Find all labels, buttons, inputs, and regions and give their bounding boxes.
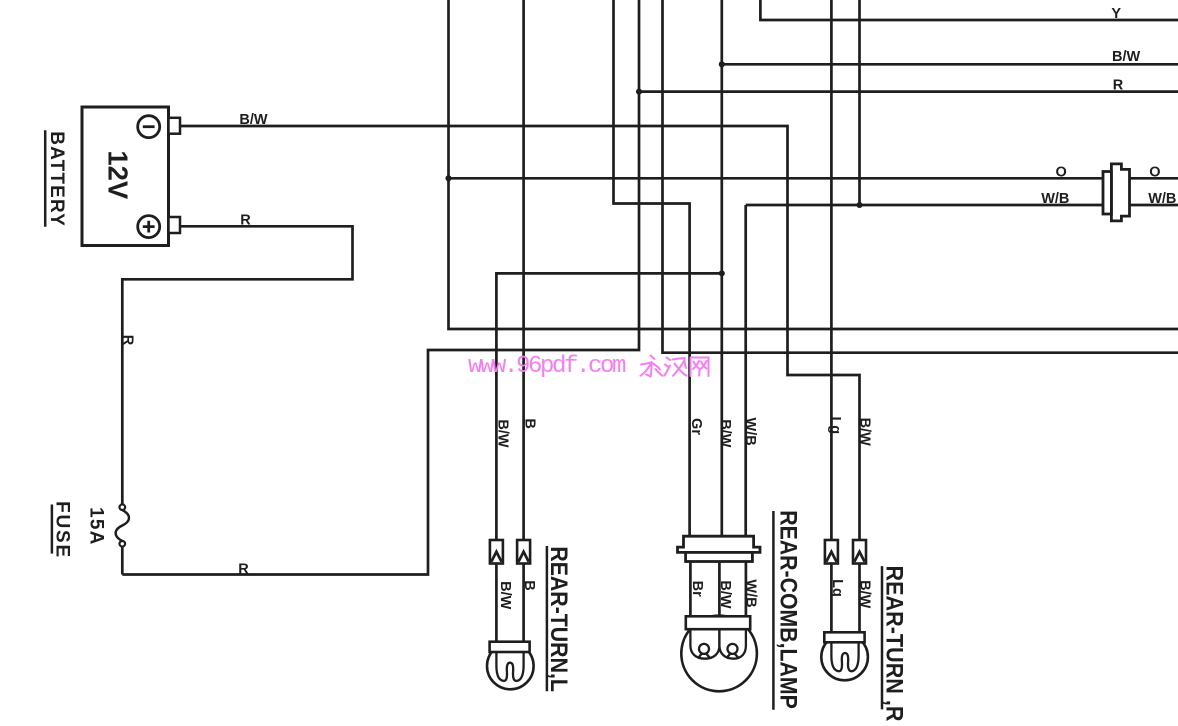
svg-text:B/W: B/W xyxy=(856,580,872,609)
svg-text:Br: Br xyxy=(689,581,705,597)
svg-text:B/W: B/W xyxy=(717,580,733,609)
svg-text:Gr: Gr xyxy=(688,418,704,435)
svg-text:Y: Y xyxy=(1111,6,1121,22)
svg-text:Lg: Lg xyxy=(829,579,845,597)
svg-text:W/B: W/B xyxy=(1148,191,1176,207)
svg-text:B/W: B/W xyxy=(717,419,733,448)
svg-text:REAR-TURN,L: REAR-TURN,L xyxy=(546,546,573,692)
svg-text:R: R xyxy=(238,561,249,577)
svg-text:W/B: W/B xyxy=(742,418,758,446)
svg-text:15A: 15A xyxy=(85,507,106,545)
svg-text:R: R xyxy=(240,212,251,228)
svg-text:B/W: B/W xyxy=(856,418,872,447)
svg-text:REAR-TURN ,R: REAR-TURN ,R xyxy=(881,566,908,722)
svg-text:B/W: B/W xyxy=(497,581,513,610)
svg-text:REAR-COMB,LAMP: REAR-COMB,LAMP xyxy=(775,510,803,709)
svg-text:O: O xyxy=(1056,164,1067,180)
svg-text:W/B: W/B xyxy=(1041,191,1069,207)
svg-text:R: R xyxy=(1113,77,1124,93)
svg-text:B/W: B/W xyxy=(239,112,268,128)
svg-text:B: B xyxy=(522,418,538,428)
svg-text:B/W: B/W xyxy=(494,419,510,448)
svg-text:www.96pdf.com: www.96pdf.com xyxy=(468,353,626,380)
svg-text:B/W: B/W xyxy=(1112,49,1141,65)
svg-text:W/B: W/B xyxy=(743,579,759,607)
svg-text:O: O xyxy=(1149,164,1160,180)
svg-text:FUSE: FUSE xyxy=(51,501,72,559)
svg-text:R: R xyxy=(120,335,136,346)
svg-text:12V: 12V xyxy=(102,150,133,199)
svg-text:B: B xyxy=(521,580,537,590)
svg-text:BATTERY: BATTERY xyxy=(46,131,67,227)
svg-text:Lg: Lg xyxy=(827,416,843,434)
